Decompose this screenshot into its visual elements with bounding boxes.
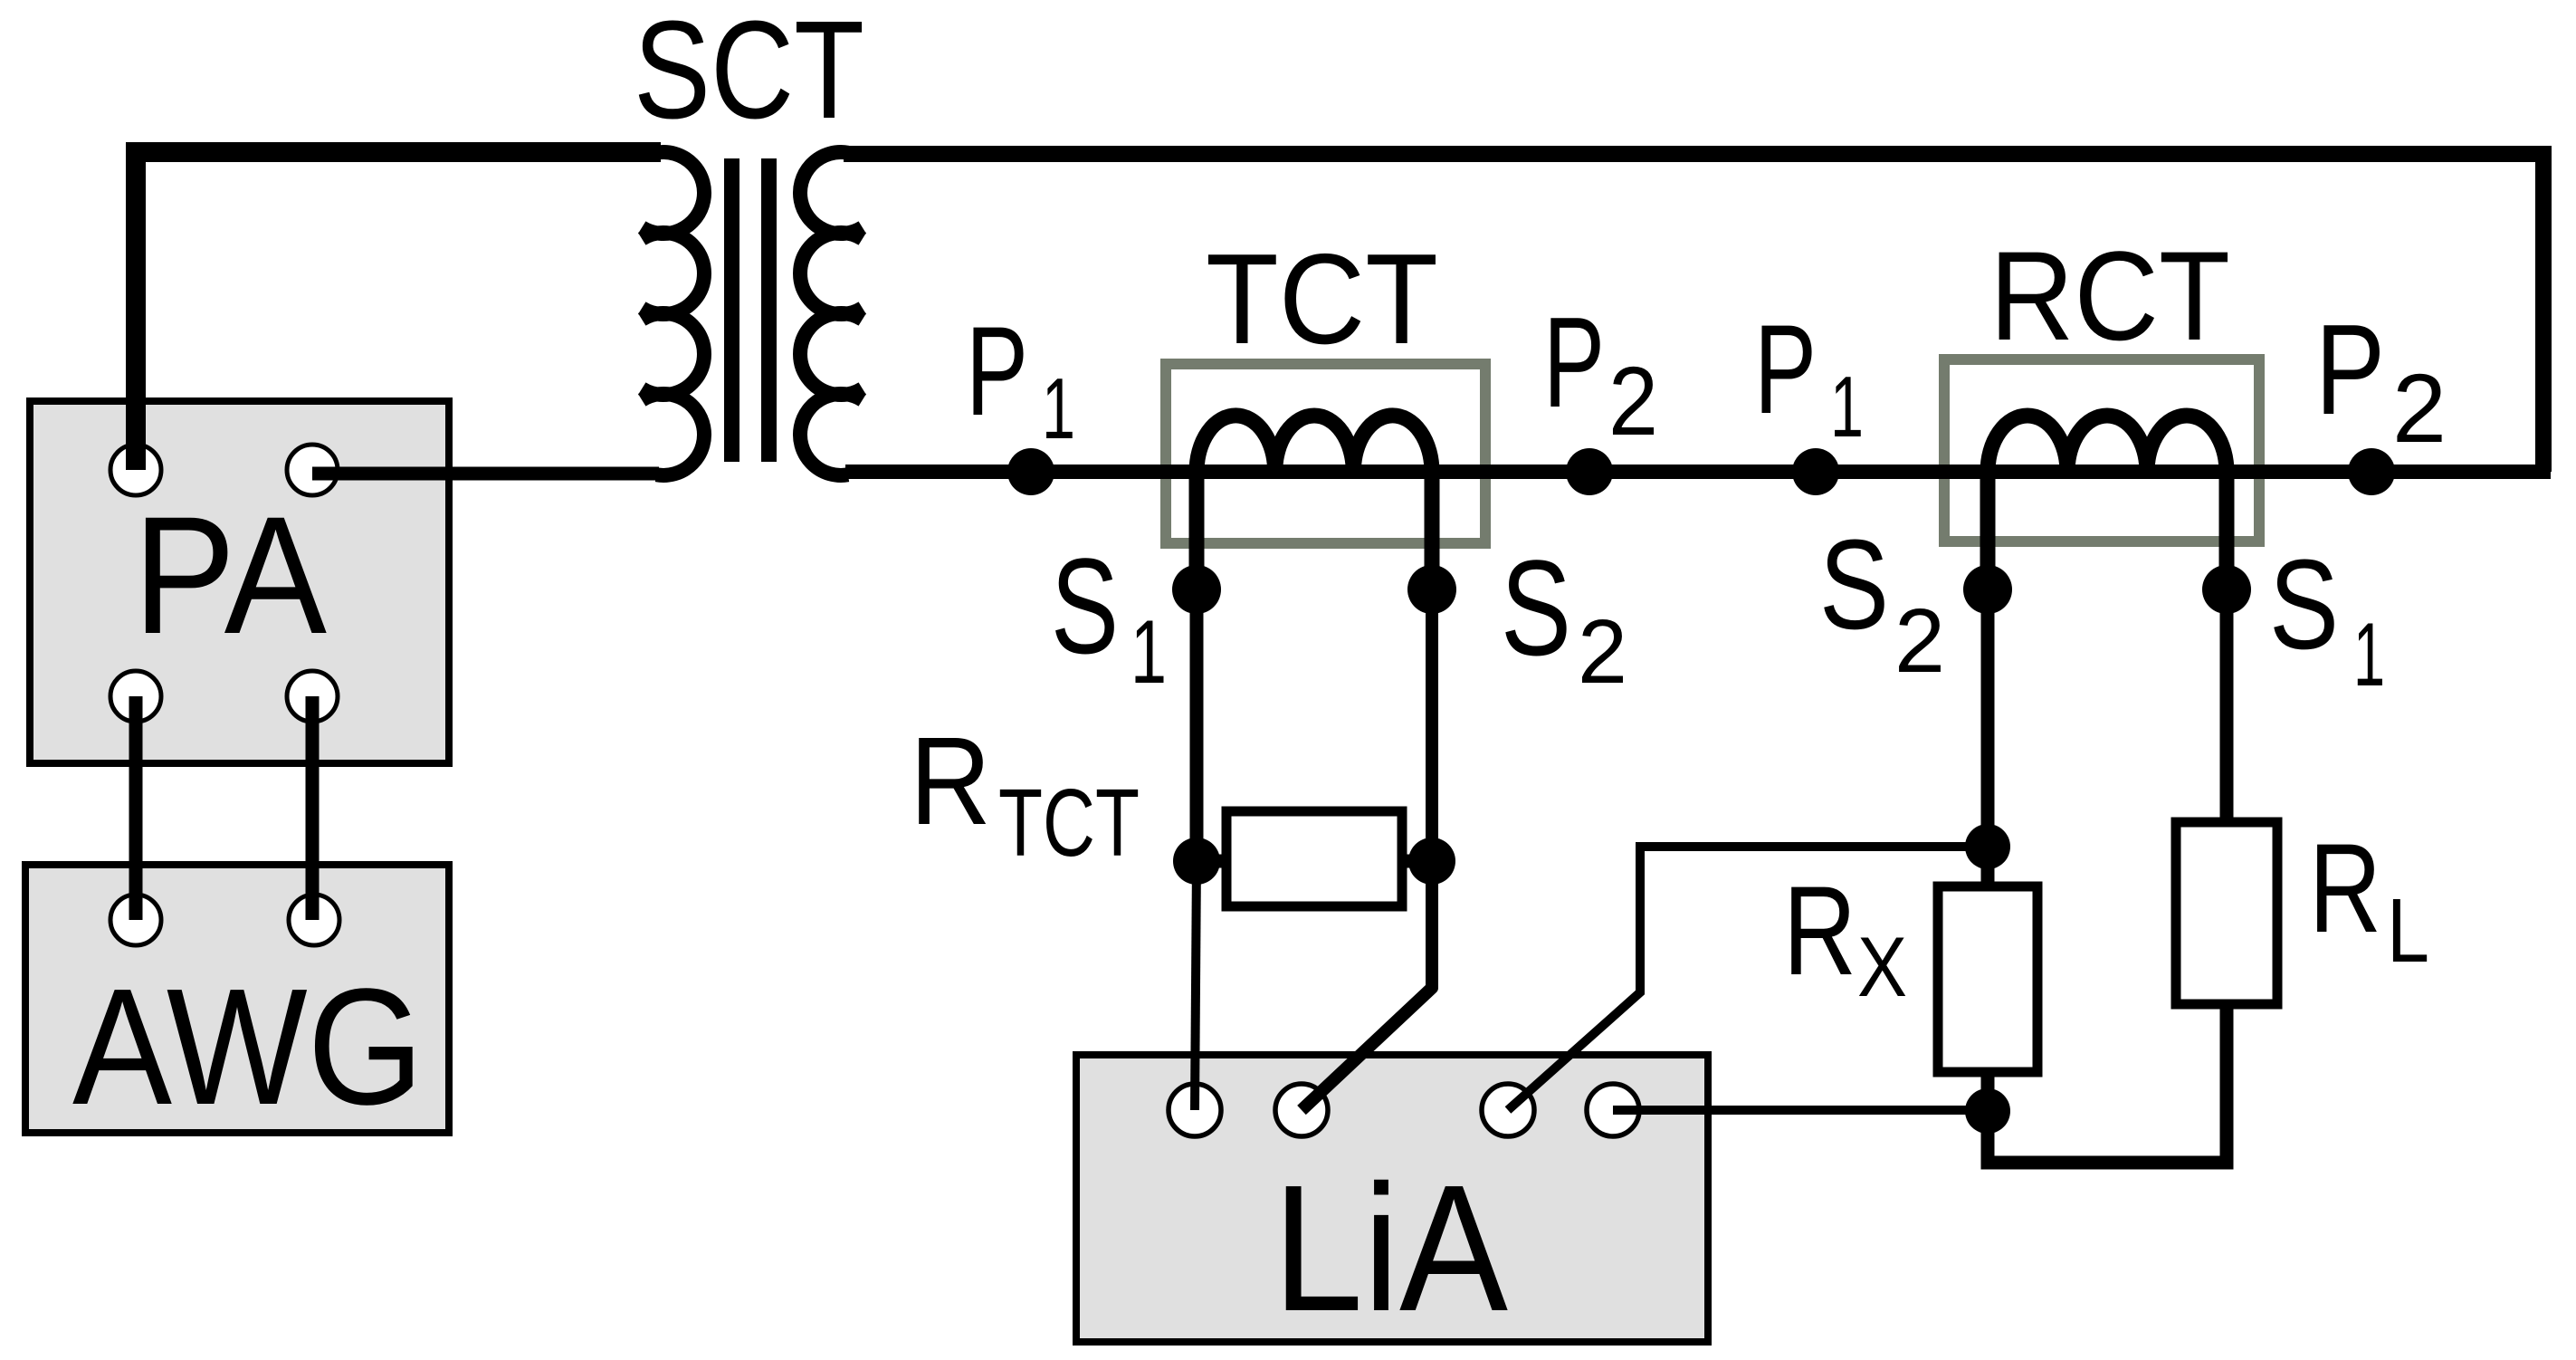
svg-text:1: 1 [1131, 601, 1167, 702]
svg-text:TCT: TCT [1206, 227, 1438, 371]
svg-text:2: 2 [1608, 346, 1658, 455]
svg-text:P: P [2315, 298, 2385, 442]
svg-text:S: S [2269, 532, 2339, 675]
svg-text:P: P [1543, 291, 1605, 435]
svg-text:P: P [1754, 298, 1817, 440]
svg-text:AWG: AWG [72, 953, 424, 1139]
svg-text:S: S [1819, 512, 1889, 656]
svg-text:1: 1 [1042, 360, 1075, 457]
svg-text:P: P [966, 300, 1028, 442]
svg-text:2: 2 [1894, 590, 1945, 692]
svg-text:PA: PA [133, 483, 328, 669]
svg-text:1: 1 [1830, 359, 1864, 455]
svg-text:RCT: RCT [1989, 225, 2230, 367]
svg-text:X: X [1857, 919, 1907, 1014]
svg-text:TCT: TCT [998, 770, 1140, 876]
svg-text:S: S [1501, 532, 1571, 684]
svg-text:SCT: SCT [634, 0, 864, 148]
svg-text:R: R [1783, 859, 1856, 1001]
svg-text:LiA: LiA [1273, 1148, 1508, 1349]
svg-text:R: R [2309, 817, 2381, 959]
svg-text:2: 2 [1578, 601, 1627, 703]
svg-text:1: 1 [2353, 604, 2385, 704]
svg-text:S: S [1051, 530, 1119, 682]
svg-text:2: 2 [2392, 353, 2447, 463]
svg-text:R: R [910, 712, 991, 851]
svg-text:L: L [2387, 880, 2429, 982]
